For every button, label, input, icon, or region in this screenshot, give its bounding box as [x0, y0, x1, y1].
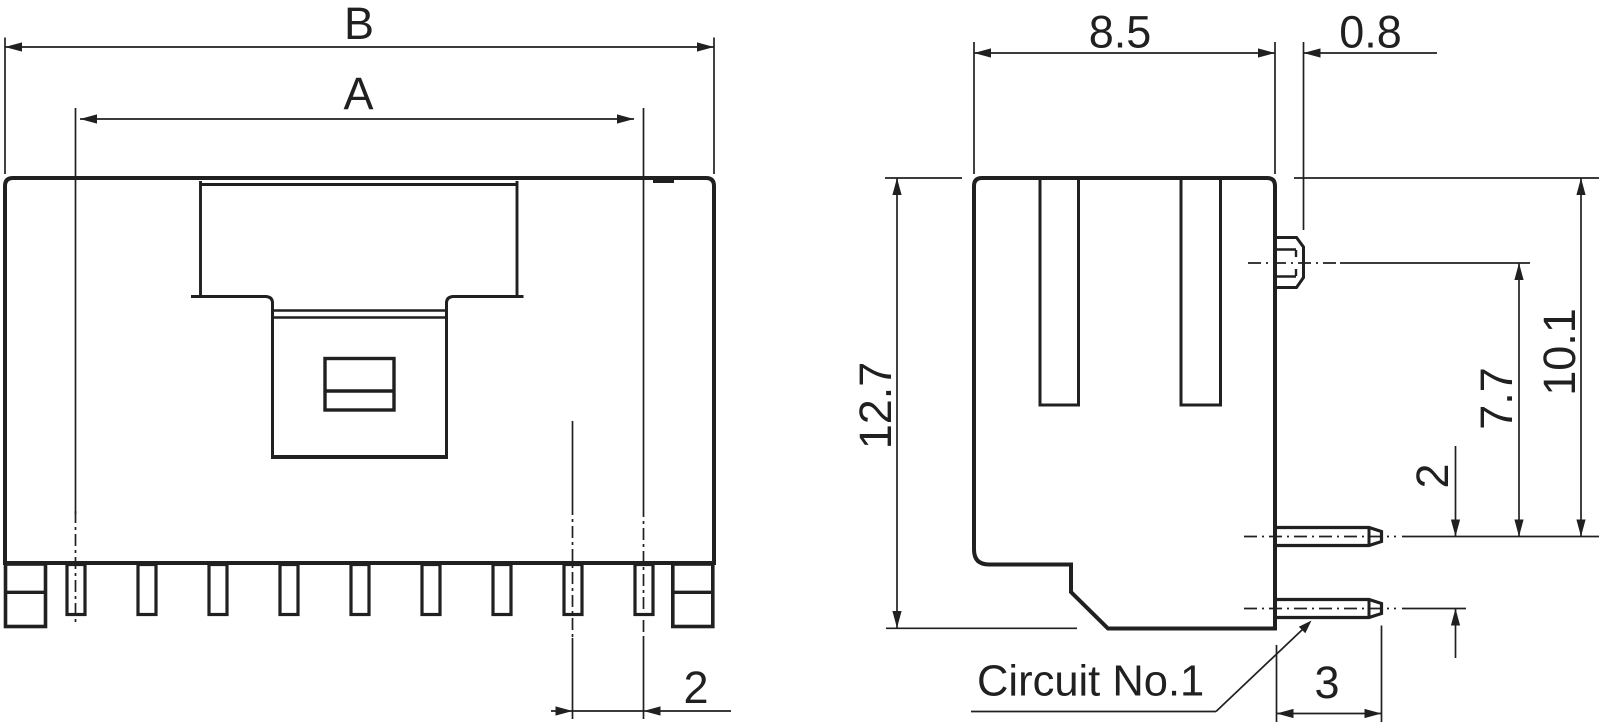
pin 9 centerline: [643, 505, 645, 638]
lower pin center extension: [1402, 608, 1466, 610]
boss peg outline: [1275, 238, 1304, 288]
latch window divider: [325, 389, 394, 392]
dimension 10.1 arrow bottom: [1576, 520, 1585, 537]
dimension 2 arrow right: [644, 706, 661, 715]
pin 5: [351, 565, 369, 615]
mating slot left wall: [199, 181, 202, 296]
pin 8 centerline lower: [572, 638, 574, 719]
boss peg centerline: [1248, 262, 1340, 264]
dimension 3 extension left: [1276, 645, 1278, 722]
dimension 12.7 arrow top: [892, 178, 901, 195]
dimension 2 arrow left: [556, 706, 573, 715]
dimension A arrow right: [617, 114, 634, 123]
dimension 3 arrow left: [1277, 709, 1294, 718]
dimension 12.7 arrow bottom: [892, 611, 901, 628]
lower pin (side view): [1275, 600, 1382, 618]
pin 8 centerline upper: [572, 421, 574, 503]
dimension 2 (row pitch) lower line: [1455, 609, 1457, 659]
dimension 2 (row pitch) arrow down: [1451, 520, 1460, 537]
mounting tab right: [673, 564, 713, 627]
svg-text:8.5: 8.5: [1089, 7, 1152, 58]
side slot 2: [1181, 180, 1221, 405]
upper pin center extension: [1402, 536, 1599, 538]
pin 6: [422, 565, 440, 615]
latch window: [325, 359, 394, 411]
latch tower bottom: [271, 455, 448, 459]
slot bottom flange left: [191, 297, 273, 458]
mounting tab left divider: [6, 591, 46, 594]
mounting tab left: [6, 564, 46, 627]
dimension 12.7 extension top: [885, 177, 962, 179]
svg-text:7.7: 7.7: [1471, 367, 1522, 430]
svg-text:3: 3: [1314, 657, 1339, 708]
pin 7: [493, 565, 511, 615]
dimension 3 arrow right: [1365, 709, 1382, 718]
dimension 7.7 extension (peg center): [1340, 262, 1530, 264]
svg-text:10.1: 10.1: [1534, 308, 1585, 396]
mating slot right wall: [516, 181, 519, 296]
svg-text:2: 2: [1407, 463, 1458, 488]
dimension A extension line left: [75, 108, 77, 514]
polarity mark: [653, 177, 674, 183]
pin 1: [67, 565, 85, 615]
dimension A line: [80, 118, 634, 120]
latch tower top double line: [274, 311, 445, 318]
dimension 8.5 arrow right: [1258, 48, 1275, 57]
dimension 12.7 line: [896, 178, 898, 628]
dimension 0.8 line: [1304, 52, 1438, 54]
dimension 3 line: [1277, 713, 1382, 715]
dimension B line: [5, 46, 714, 48]
dimension 10.1 line: [1580, 178, 1582, 537]
dimension 3 extension right: [1381, 626, 1383, 723]
mating slot top line: [201, 183, 518, 186]
lower pin collar: [1368, 600, 1371, 618]
dimension 8.5 extension left: [973, 42, 975, 174]
dimension 2 (row pitch) arrow up: [1451, 609, 1460, 626]
svg-text:Circuit No.1: Circuit No.1: [977, 658, 1204, 706]
dimension B extension line left: [4, 38, 6, 175]
leader underline: [971, 711, 1216, 713]
dimension 7.7 arrow bottom: [1514, 520, 1523, 537]
dimension 8.5 line: [974, 52, 1275, 54]
connector body (front view): [5, 178, 714, 563]
leader arrowhead: [1299, 621, 1312, 634]
svg-text:A: A: [343, 68, 373, 119]
dimension 12.7 extension bottom: [886, 627, 1077, 629]
dimension 2 (row pitch) upper line: [1455, 446, 1457, 537]
leader line: [1216, 629, 1303, 712]
dimension A extension line right: [643, 108, 645, 505]
dimension 8.5 extension right: [1274, 42, 1276, 174]
svg-text:B: B: [344, 0, 374, 49]
dimension A arrow left: [80, 114, 97, 123]
mounting tab right divider: [673, 591, 713, 594]
pin 1 centerline: [75, 511, 77, 626]
dimension 0.8 extension: [1303, 42, 1305, 230]
pin 8: [564, 565, 582, 615]
pin 3: [209, 565, 227, 615]
connector body (side view): [974, 178, 1275, 629]
dimension 10.1 arrow top: [1576, 178, 1585, 195]
dimension B extension line right: [713, 38, 715, 175]
dimension B arrow right: [697, 42, 714, 51]
dimension B arrow left: [5, 42, 22, 51]
svg-text:12.7: 12.7: [850, 362, 901, 450]
pin 4: [280, 565, 298, 615]
pin 9: [635, 565, 653, 615]
dimension 2 (pitch) line: [551, 710, 731, 712]
dimension 7.7 line: [1518, 263, 1520, 537]
dimension 8.5 arrow left: [974, 48, 991, 57]
svg-text:2: 2: [683, 662, 708, 713]
upper pin collar: [1368, 528, 1371, 546]
upper pin (side view): [1275, 528, 1382, 546]
pin 8 centerline: [572, 503, 574, 638]
boss peg inner lines: [1275, 250, 1296, 277]
lower pin centerline: [1244, 608, 1396, 610]
dimension 0.8 arrow: [1304, 48, 1321, 57]
upper pin centerline: [1244, 536, 1396, 538]
dimension 7.7 arrow top: [1514, 263, 1523, 280]
svg-text:0.8: 0.8: [1339, 7, 1402, 58]
top extension line right: [1294, 177, 1599, 179]
side slot 1: [1040, 180, 1079, 405]
pin 2: [138, 565, 156, 615]
slot bottom flange right: [447, 297, 524, 458]
pin 9 centerline lower: [643, 638, 645, 719]
